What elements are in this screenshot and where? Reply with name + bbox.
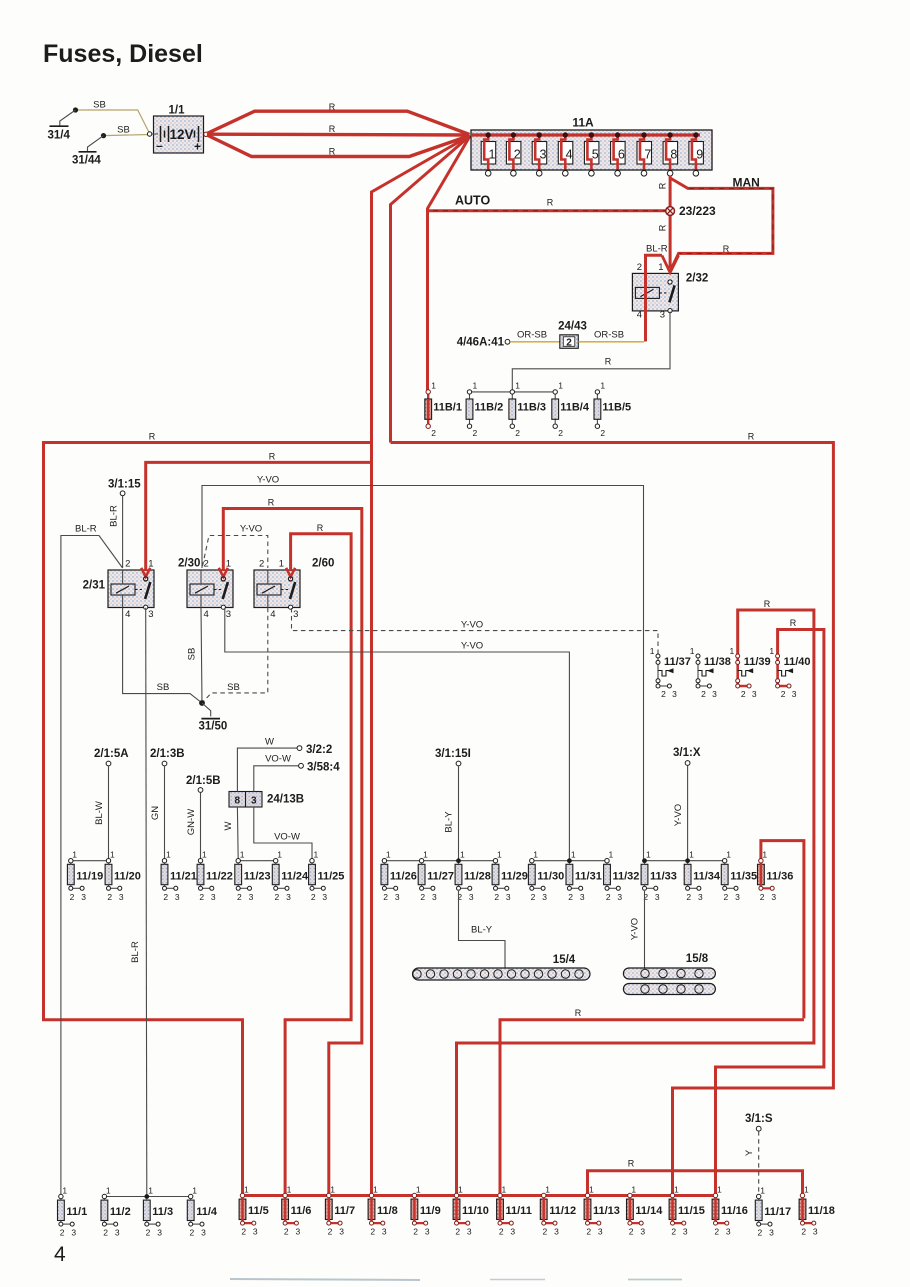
connector fuse 11/1 <box>58 1185 88 1237</box>
svg-text:1: 1 <box>386 850 391 860</box>
svg-text:23/223: 23/223 <box>679 204 716 218</box>
svg-text:R: R <box>329 124 336 134</box>
svg-text:1: 1 <box>148 1185 153 1195</box>
svg-text:5: 5 <box>592 148 599 162</box>
svg-text:3: 3 <box>735 892 740 902</box>
svg-text:1: 1 <box>106 1185 111 1195</box>
svg-text:2: 2 <box>473 428 478 438</box>
fuse 6 in 11A <box>611 132 626 176</box>
svg-text:R: R <box>628 1159 635 1169</box>
wire R loop to switch 11/39 and down to 11/10 <box>457 610 814 1196</box>
ground 31/50 <box>199 700 228 732</box>
svg-text:2: 2 <box>328 1227 333 1237</box>
svg-text:R: R <box>329 102 336 112</box>
svg-text:2/31: 2/31 <box>83 580 106 592</box>
wire R AUTO line (dashed) to 23/223 <box>428 209 666 212</box>
wire R loop to switch 11/40 and down to 11/16 <box>716 630 824 1196</box>
svg-text:+: + <box>194 140 201 154</box>
svg-text:11B/4: 11B/4 <box>560 402 590 414</box>
svg-text:11/10: 11/10 <box>462 1205 489 1217</box>
svg-text:2: 2 <box>760 892 765 902</box>
wire R bus inside fuse box 11A <box>471 133 700 136</box>
svg-text:11/37: 11/37 <box>664 656 691 668</box>
svg-text:3: 3 <box>813 1227 818 1237</box>
wire VO-W from 24/13B pin 3 up to 3/58:4 <box>254 766 299 792</box>
switch 11/38 <box>690 646 731 699</box>
svg-text:11/35: 11/35 <box>730 870 757 882</box>
svg-text:R: R <box>764 599 771 609</box>
svg-text:3: 3 <box>771 892 776 902</box>
svg-text:2: 2 <box>686 892 691 902</box>
svg-text:3: 3 <box>339 1227 344 1237</box>
svg-text:1: 1 <box>431 381 436 391</box>
svg-text:3/2:2: 3/2:2 <box>306 744 332 756</box>
connector fuse 11/28 <box>455 850 491 902</box>
svg-text:2: 2 <box>199 892 204 902</box>
connector fuse 11/22 <box>197 850 233 902</box>
svg-text:MAN: MAN <box>733 176 760 190</box>
svg-text:1: 1 <box>631 1184 636 1194</box>
terminal 2/1:3B and wire GN to 11/21 <box>150 748 185 861</box>
wire BL-Y from 11/28 down to 15/4 <box>459 891 506 972</box>
wire R fuse 8 down to 23/223 and relay 2/32 pin 1 <box>669 176 672 268</box>
ground 31/44 <box>72 133 106 167</box>
svg-text:R: R <box>575 1008 582 1018</box>
connector fuse 11/17 <box>755 1185 791 1237</box>
connector fuse 11/3 <box>143 1185 173 1237</box>
svg-text:2: 2 <box>204 559 209 570</box>
svg-text:3: 3 <box>698 892 703 902</box>
svg-text:3: 3 <box>660 309 665 320</box>
connector 11B/1 <box>425 381 462 439</box>
svg-text:2: 2 <box>515 428 520 438</box>
svg-text:11/23: 11/23 <box>244 870 271 882</box>
svg-text:3: 3 <box>769 1228 774 1238</box>
connector fuse 11/33 <box>641 850 677 902</box>
svg-text:1: 1 <box>489 148 496 162</box>
svg-text:3: 3 <box>296 1227 301 1237</box>
wire R fuse box to AUTO corner / 11B/1 feed <box>428 136 471 392</box>
connector strip 15/8 (lower) <box>623 984 715 995</box>
svg-text:2: 2 <box>600 428 605 438</box>
svg-text:3: 3 <box>322 892 327 902</box>
svg-text:Y-VO: Y-VO <box>673 804 684 826</box>
svg-text:3/1:S: 3/1:S <box>745 1113 773 1125</box>
svg-text:4: 4 <box>637 309 642 320</box>
wire SB dashed from relay 2/60 pin 4 to ground junction <box>202 608 268 703</box>
svg-text:3: 3 <box>672 689 677 699</box>
svg-text:4: 4 <box>204 609 209 620</box>
svg-text:BL-R: BL-R <box>646 244 668 255</box>
switch 11/40 <box>769 646 810 699</box>
svg-text:3: 3 <box>251 796 257 807</box>
svg-text:3/58:4: 3/58:4 <box>307 762 340 774</box>
wire Y-VO solid: 2/30 pin 3 right and down to 11/31 <box>225 608 570 861</box>
connector fuse 11/14 <box>627 1184 664 1236</box>
svg-text:3: 3 <box>211 892 216 902</box>
svg-text:1: 1 <box>460 850 465 860</box>
svg-text:11/3: 11/3 <box>152 1206 173 1218</box>
svg-text:4: 4 <box>125 609 130 620</box>
svg-text:2: 2 <box>370 1227 375 1237</box>
wire OR-SB right <box>578 341 644 343</box>
svg-text:SB: SB <box>117 125 130 136</box>
svg-text:3: 3 <box>554 1227 559 1237</box>
wire Y-VO from 11/33 down to 15/8 <box>644 891 646 972</box>
svg-text:1: 1 <box>166 850 171 860</box>
connector 11B/3 <box>509 381 546 439</box>
svg-text:2: 2 <box>543 1227 548 1237</box>
svg-text:11/12: 11/12 <box>549 1205 576 1217</box>
svg-text:2: 2 <box>586 1227 591 1237</box>
svg-text:1: 1 <box>72 850 77 860</box>
svg-text:1: 1 <box>502 1184 507 1194</box>
svg-text:1: 1 <box>330 1184 335 1194</box>
svg-text:1: 1 <box>277 850 282 860</box>
svg-text:11/6: 11/6 <box>291 1205 312 1217</box>
wire from relay 2/31 pin 3 down to 11/3 <box>146 608 147 1197</box>
svg-text:1: 1 <box>558 381 563 391</box>
svg-text:11/20: 11/20 <box>114 870 141 882</box>
svg-text:3: 3 <box>395 892 400 902</box>
connector 11B/2 <box>466 381 503 439</box>
svg-text:R: R <box>317 523 324 533</box>
svg-text:11/17: 11/17 <box>764 1206 791 1218</box>
svg-text:3: 3 <box>792 689 797 699</box>
svg-text:1: 1 <box>533 850 538 860</box>
svg-text:–: – <box>156 139 163 153</box>
connector fuse 11/32 <box>604 850 640 902</box>
svg-text:1: 1 <box>650 646 655 656</box>
svg-text:3: 3 <box>432 892 437 902</box>
ground 31/4 <box>48 107 79 141</box>
svg-text:11/5: 11/5 <box>248 1205 269 1217</box>
wire R (BL-R) branch through relay 2/32 down to OR-SB junction <box>646 255 663 341</box>
connector fuse 11/18 <box>799 1184 835 1236</box>
svg-text:31/50: 31/50 <box>199 721 228 733</box>
svg-text:4: 4 <box>566 148 573 162</box>
svg-text:11/13: 11/13 <box>593 1205 620 1217</box>
terminal 4/46A:41 <box>505 339 510 344</box>
connector fuse 11/6 <box>282 1184 312 1236</box>
svg-text:11/26: 11/26 <box>390 870 417 882</box>
svg-text:1: 1 <box>110 850 115 860</box>
svg-text:3: 3 <box>148 609 153 620</box>
svg-text:OR-SB: OR-SB <box>594 330 624 341</box>
svg-text:1: 1 <box>192 1185 197 1195</box>
svg-text:Fuses, Diesel: Fuses, Diesel <box>43 40 203 68</box>
svg-text:2: 2 <box>259 559 264 570</box>
svg-text:11/14: 11/14 <box>635 1205 663 1217</box>
svg-text:R: R <box>658 182 668 189</box>
svg-text:3: 3 <box>726 1227 731 1237</box>
svg-text:11B/2: 11B/2 <box>475 402 504 414</box>
svg-text:R: R <box>547 198 554 208</box>
wire R bus 11/5-11/16 <box>243 1194 716 1197</box>
svg-text:1: 1 <box>571 850 576 860</box>
switch 11/39 <box>729 646 770 699</box>
svg-text:3: 3 <box>510 1227 515 1237</box>
svg-text:3: 3 <box>157 1228 162 1238</box>
fuse 2 in 11A <box>506 132 521 176</box>
svg-text:2: 2 <box>420 892 425 902</box>
connector 23/223 <box>666 204 716 218</box>
svg-text:11/19: 11/19 <box>76 870 103 882</box>
svg-text:1: 1 <box>497 850 502 860</box>
svg-text:3: 3 <box>382 1227 387 1237</box>
svg-text:15/8: 15/8 <box>686 953 709 965</box>
terminal 3/1:15I and wire BL-Y to 11/28 <box>435 748 471 861</box>
svg-text:3: 3 <box>506 892 511 902</box>
svg-text:11/11: 11/11 <box>506 1205 532 1217</box>
svg-text:11/15: 11/15 <box>678 1205 705 1217</box>
svg-text:1: 1 <box>646 850 651 860</box>
svg-text:R: R <box>748 432 755 442</box>
connector fuse 11/26 <box>381 850 417 902</box>
svg-text:1: 1 <box>729 646 734 656</box>
svg-text:12V: 12V <box>169 127 193 142</box>
svg-text:11A: 11A <box>572 116 594 130</box>
svg-text:2: 2 <box>70 892 75 902</box>
svg-text:R: R <box>723 244 730 254</box>
svg-text:2/30: 2/30 <box>178 558 200 570</box>
connector fuse 11/30 <box>528 850 564 902</box>
svg-text:3: 3 <box>71 1228 76 1238</box>
svg-text:8: 8 <box>235 796 241 807</box>
wire gray R from relay 2/32 pin 3 to 11B/3 <box>512 312 670 392</box>
connector fuse 11/8 <box>368 1184 398 1236</box>
svg-text:3: 3 <box>469 892 474 902</box>
svg-text:R: R <box>329 146 336 156</box>
svg-text:11/32: 11/32 <box>613 870 640 882</box>
svg-text:11/34: 11/34 <box>693 870 721 882</box>
svg-text:11/30: 11/30 <box>537 870 564 882</box>
terminal 3/1:S and wire Y dashed to 11/17 <box>744 1113 773 1196</box>
wire R right: vertical #2 to right border down to 11/15 feed <box>391 443 834 1196</box>
wire R fuse box to vertical #2 (down to MAN-side feed) <box>391 136 471 443</box>
wire R from 11/36 loop down to 11/11 <box>500 1020 804 1196</box>
svg-text:BL-R: BL-R <box>109 505 120 527</box>
svg-text:2: 2 <box>413 1227 418 1237</box>
wire R bridge over 11/17 to 11/18 <box>588 1171 803 1196</box>
svg-text:1: 1 <box>244 1184 249 1194</box>
connector fuse 11/16 <box>712 1184 748 1236</box>
svg-text:1: 1 <box>762 850 767 860</box>
svg-text:2: 2 <box>781 689 786 699</box>
svg-text:BL-W: BL-W <box>94 801 105 825</box>
relay 2/32 <box>632 262 708 321</box>
svg-text:2/1:5B: 2/1:5B <box>186 775 221 787</box>
wire R loop feeding 11/36 <box>761 841 804 1019</box>
svg-text:1/1: 1/1 <box>169 105 186 117</box>
svg-text:SB: SB <box>93 100 106 111</box>
svg-text:3: 3 <box>655 892 660 902</box>
svg-text:Y-VO: Y-VO <box>461 640 483 651</box>
svg-text:1: 1 <box>279 559 284 570</box>
svg-text:Y-VO: Y-VO <box>257 474 279 485</box>
svg-text:2: 2 <box>103 1228 108 1238</box>
wire bus 11/23-11/24 <box>238 860 276 862</box>
connector fuse 11/12 <box>540 1184 576 1236</box>
wire R battery to fuse box (middle of bundle) <box>207 132 470 136</box>
svg-text:3: 3 <box>752 689 757 699</box>
svg-text:1: 1 <box>804 1184 809 1194</box>
connector strip 15/4 <box>413 954 591 980</box>
svg-text:6: 6 <box>618 148 625 162</box>
svg-text:2: 2 <box>237 892 242 902</box>
svg-text:11/16: 11/16 <box>721 1205 748 1217</box>
wire SB from relay 2/31 pin 4 to ground junction <box>123 608 202 703</box>
svg-text:24/43: 24/43 <box>558 321 587 333</box>
svg-text:1: 1 <box>769 646 774 656</box>
svg-text:11/21: 11/21 <box>170 870 197 882</box>
svg-text:7: 7 <box>644 148 651 162</box>
svg-text:1: 1 <box>202 850 207 860</box>
svg-text:Y-VO: Y-VO <box>630 918 641 940</box>
svg-text:2/60: 2/60 <box>312 558 334 570</box>
svg-text:11B/3: 11B/3 <box>517 402 546 414</box>
svg-text:W: W <box>265 737 274 748</box>
wire Y-VO dashed: 2/30 pin 2 to 2/60 pin 2 <box>203 536 268 569</box>
relay 2/30 <box>178 558 233 621</box>
svg-text:2: 2 <box>125 559 130 570</box>
connector fuse 11/35 <box>721 850 757 902</box>
connector fuse 11/25 <box>309 850 345 902</box>
svg-text:1: 1 <box>760 1185 765 1195</box>
arrow into relay pin 1 <box>141 568 150 577</box>
svg-text:11/40: 11/40 <box>784 656 811 668</box>
scan artifacts at bottom edge <box>230 1279 420 1280</box>
connector fuse 11/21 <box>161 850 197 902</box>
svg-text:2: 2 <box>494 892 499 902</box>
svg-text:1: 1 <box>416 1184 421 1194</box>
wire SB from relay 2/30 pin 4 to ground junction <box>201 608 202 703</box>
svg-text:OR-SB: OR-SB <box>517 330 547 341</box>
fuse 1 in 11A <box>481 132 496 176</box>
svg-text:3: 3 <box>249 892 254 902</box>
svg-text:1: 1 <box>589 1184 594 1194</box>
svg-text:11/29: 11/29 <box>501 870 528 882</box>
wire R battery to fuse box (top of bundle) <box>207 111 470 134</box>
svg-text:8: 8 <box>670 148 677 162</box>
wire R fuse box to long vertical #1 (down to 11/8) <box>372 136 471 1196</box>
svg-text:2: 2 <box>701 689 706 699</box>
svg-text:11/33: 11/33 <box>650 870 677 882</box>
svg-text:3/1:15I: 3/1:15I <box>435 748 471 760</box>
connector fuse 11/7 <box>325 1184 355 1236</box>
svg-text:2: 2 <box>629 1227 634 1237</box>
wire SB from ground 31/44 to battery <box>104 135 150 136</box>
wire Y-VO dashed: 2/60 pin 3 to switch 11/37 <box>292 608 659 654</box>
svg-text:2: 2 <box>514 148 521 162</box>
svg-text:11/1: 11/1 <box>66 1206 87 1218</box>
wire W from 24/13B pin 8 up to 3/2:2 <box>237 748 297 791</box>
svg-text:SB: SB <box>157 682 170 693</box>
terminal 2/1:5A and wire BL-W to 11/20 <box>94 748 129 861</box>
svg-text:3: 3 <box>175 892 180 902</box>
arrow into relay pin 1 <box>219 568 228 577</box>
svg-text:2: 2 <box>146 1228 151 1238</box>
connector fuse 11/15 <box>669 1184 705 1236</box>
svg-text:R: R <box>269 451 276 461</box>
svg-text:1: 1 <box>62 1185 67 1195</box>
svg-text:BL-Y: BL-Y <box>444 811 455 833</box>
fuse 4 in 11A <box>558 132 573 176</box>
svg-text:3: 3 <box>712 689 717 699</box>
wire VO-W from 24/13B pin 3 down to 11/25 <box>254 807 312 861</box>
svg-text:11B/1: 11B/1 <box>433 402 462 414</box>
connector fuse 11/5 <box>239 1184 269 1236</box>
svg-text:2/1:5A: 2/1:5A <box>94 748 129 760</box>
svg-text:2: 2 <box>455 1227 460 1237</box>
wire bus for 11B/2 11B/3 11B/4 <box>470 391 556 393</box>
svg-text:R: R <box>790 618 797 628</box>
svg-text:11/4: 11/4 <box>196 1206 218 1218</box>
connector fuse 11/11 <box>497 1184 532 1236</box>
relay 2/31 <box>83 559 154 621</box>
svg-text:2: 2 <box>60 1228 65 1238</box>
svg-text:11B/5: 11B/5 <box>602 402 631 414</box>
svg-text:3: 3 <box>286 892 291 902</box>
svg-text:2: 2 <box>284 1227 289 1237</box>
svg-text:2: 2 <box>724 892 729 902</box>
wire BL-R from 3/1:15 to relay 2/31 pin 2 <box>122 496 124 568</box>
wire R to relay 2/30 pin 1 and down to 11/7 <box>223 509 361 1196</box>
svg-text:3: 3 <box>293 609 298 620</box>
svg-text:R: R <box>268 497 275 507</box>
svg-text:2: 2 <box>190 1228 195 1238</box>
wire OR-SB left <box>510 341 561 343</box>
svg-text:R: R <box>149 432 156 442</box>
svg-text:W: W <box>223 821 234 830</box>
connector 11B/4 <box>552 381 590 439</box>
svg-text:1: 1 <box>689 850 694 860</box>
svg-text:1: 1 <box>609 850 614 860</box>
svg-text:3/1:X: 3/1:X <box>673 747 701 759</box>
svg-text:2: 2 <box>637 262 642 273</box>
svg-text:3: 3 <box>598 1227 603 1237</box>
wire Y-VO solid: 2/30 pin 2 up and right, down to 11/33 <box>202 486 644 861</box>
svg-text:3: 3 <box>226 609 231 620</box>
svg-text:2: 2 <box>383 892 388 902</box>
connector 11B/5 <box>594 381 631 439</box>
connector fuse 11/10 <box>453 1184 489 1236</box>
svg-text:BL-R: BL-R <box>75 524 97 535</box>
svg-text:2: 2 <box>671 1227 676 1237</box>
svg-text:4/46A:41: 4/46A:41 <box>457 337 505 349</box>
svg-text:3: 3 <box>425 1227 430 1237</box>
svg-text:1: 1 <box>458 1184 463 1194</box>
svg-text:3: 3 <box>540 148 547 162</box>
svg-text:1: 1 <box>473 381 478 391</box>
svg-text:2: 2 <box>801 1227 806 1237</box>
wire R battery to fuse box (bottom of bundle) <box>207 135 470 157</box>
terminal 2/1:5B and wire GN-W to 11/22 <box>186 775 221 861</box>
svg-text:11/31: 11/31 <box>575 870 602 882</box>
in-line connector 24/13B with terminals 3/2:2 and 3/58:4 <box>229 792 304 808</box>
connector fuse 11/36 <box>758 850 794 902</box>
svg-text:3: 3 <box>467 1227 472 1237</box>
svg-text:1: 1 <box>545 1184 550 1194</box>
svg-text:Y-VO: Y-VO <box>461 619 483 630</box>
svg-text:3/1:15: 3/1:15 <box>108 479 141 491</box>
relay 2/60 <box>254 558 334 621</box>
svg-text:2: 2 <box>758 1228 763 1238</box>
fuse 3 in 11A <box>532 132 547 176</box>
connector fuse 11/34 <box>684 850 721 902</box>
connector fuse 11/20 <box>105 850 141 902</box>
svg-text:1: 1 <box>373 1184 378 1194</box>
